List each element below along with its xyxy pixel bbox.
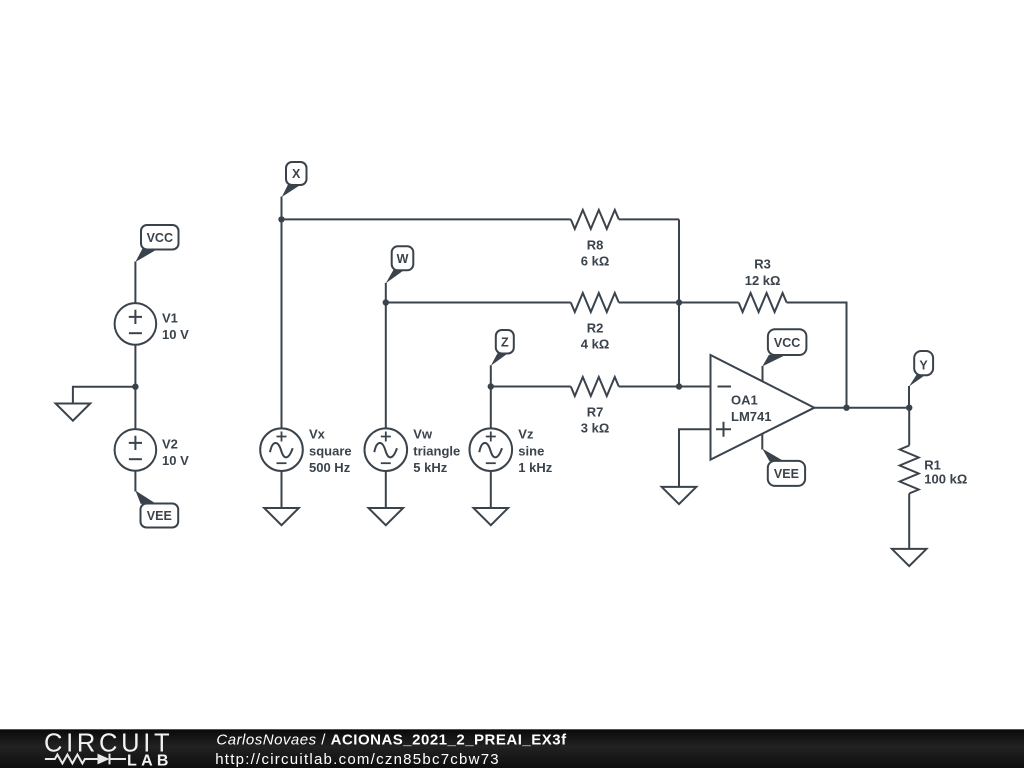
power label VCC (op-amp) (762, 329, 806, 381)
voltage source V2 (115, 429, 157, 471)
ground (56, 404, 91, 421)
svg-text:LM741: LM741 (731, 409, 771, 424)
svg-text:V1: V1 (162, 311, 178, 326)
svg-text:10 V: 10 V (162, 327, 189, 342)
wire (134, 262, 136, 304)
svg-text:1 kHz: 1 kHz (518, 460, 552, 475)
wire (679, 429, 711, 487)
signal source Vx (260, 428, 303, 471)
wire (386, 302, 571, 304)
wire (134, 345, 136, 387)
resistor R3 (739, 293, 787, 312)
svg-text:Z: Z (501, 335, 509, 349)
svg-text:VCC: VCC (774, 336, 800, 350)
wire (491, 386, 571, 388)
svg-text:Y: Y (919, 358, 928, 372)
wire (134, 471, 136, 491)
voltage source V1 (115, 303, 157, 345)
svg-text:500 Hz: 500 Hz (309, 460, 351, 475)
wire (385, 471, 387, 509)
wire (281, 219, 283, 428)
wire (134, 387, 136, 429)
wire (385, 283, 387, 303)
junction (383, 299, 389, 305)
resistor R1 (900, 446, 919, 494)
ground (662, 487, 697, 504)
node W label (386, 246, 414, 283)
node X label (282, 162, 307, 197)
svg-text:4 kΩ: 4 kΩ (581, 337, 610, 352)
resistor R8 (571, 210, 619, 229)
ground (264, 508, 299, 525)
wire (385, 303, 387, 429)
svg-text:Vw: Vw (413, 427, 433, 442)
svg-text:3 kΩ: 3 kΩ (581, 421, 610, 436)
node Y label (909, 351, 933, 408)
wire (619, 218, 679, 220)
wire (679, 302, 739, 304)
svg-text:10 V: 10 V (162, 453, 189, 468)
wire (679, 386, 711, 388)
svg-text:VCC: VCC (147, 231, 173, 245)
wire (490, 365, 492, 386)
svg-text:12 kΩ: 12 kΩ (745, 273, 781, 288)
wire (281, 471, 283, 509)
svg-text:V2: V2 (162, 437, 178, 452)
svg-text:X: X (292, 167, 301, 181)
ground (474, 508, 509, 525)
svg-text:http://circuitlab.com/czn85bc7: http://circuitlab.com/czn85bc7cbw73 (215, 751, 500, 768)
CircuitLab logo (44, 729, 173, 768)
svg-text:W: W (397, 252, 409, 266)
junction (843, 405, 849, 411)
signal source Vw (365, 428, 408, 471)
svg-text:triangle: triangle (413, 443, 460, 458)
power label VEE (op-amp) (762, 434, 805, 486)
wire (619, 302, 679, 304)
junction (676, 299, 682, 305)
svg-text:100 kΩ: 100 kΩ (924, 472, 967, 487)
junction (132, 384, 138, 390)
wire (678, 219, 680, 302)
wire (619, 386, 679, 388)
resistor R2 (571, 293, 619, 312)
svg-text:Vz: Vz (518, 427, 534, 442)
resistor R7 (571, 377, 619, 396)
wire (814, 407, 909, 409)
ground (892, 549, 927, 566)
svg-text:6 kΩ: 6 kΩ (581, 254, 610, 269)
svg-text:5 kHz: 5 kHz (413, 460, 447, 475)
node Z label (491, 330, 514, 366)
svg-text:CarlosNovaes / ACIONAS_2021_2_: CarlosNovaes / ACIONAS_2021_2_PREAI_EX3f (216, 732, 567, 749)
footer bar (0, 729, 1024, 768)
ground (369, 508, 404, 525)
junction (676, 383, 682, 389)
svg-text:VEE: VEE (774, 467, 799, 481)
wire (908, 494, 910, 549)
wire (282, 218, 571, 220)
svg-text:OA1: OA1 (731, 393, 758, 408)
wire (281, 197, 283, 220)
wire (490, 471, 492, 509)
svg-text:R3: R3 (754, 256, 771, 271)
svg-text:sine: sine (518, 443, 544, 458)
wire (490, 387, 492, 429)
power label VEE (135, 491, 178, 528)
svg-text:R7: R7 (587, 404, 604, 419)
junction (488, 383, 494, 389)
signal source Vz (470, 428, 513, 471)
op-amp OA1 (711, 355, 815, 460)
svg-text:LAB: LAB (127, 752, 173, 768)
svg-text:R1: R1 (924, 457, 941, 472)
junction (278, 216, 284, 222)
wire (908, 408, 910, 446)
svg-text:R2: R2 (587, 320, 604, 335)
svg-text:R8: R8 (587, 237, 604, 252)
svg-text:square: square (309, 443, 352, 458)
junction (906, 405, 912, 411)
power label VCC (135, 225, 178, 262)
wire (678, 303, 680, 387)
wire (787, 303, 847, 408)
svg-text:Vx: Vx (309, 427, 326, 442)
svg-text:VEE: VEE (147, 509, 172, 523)
wire (73, 387, 135, 404)
